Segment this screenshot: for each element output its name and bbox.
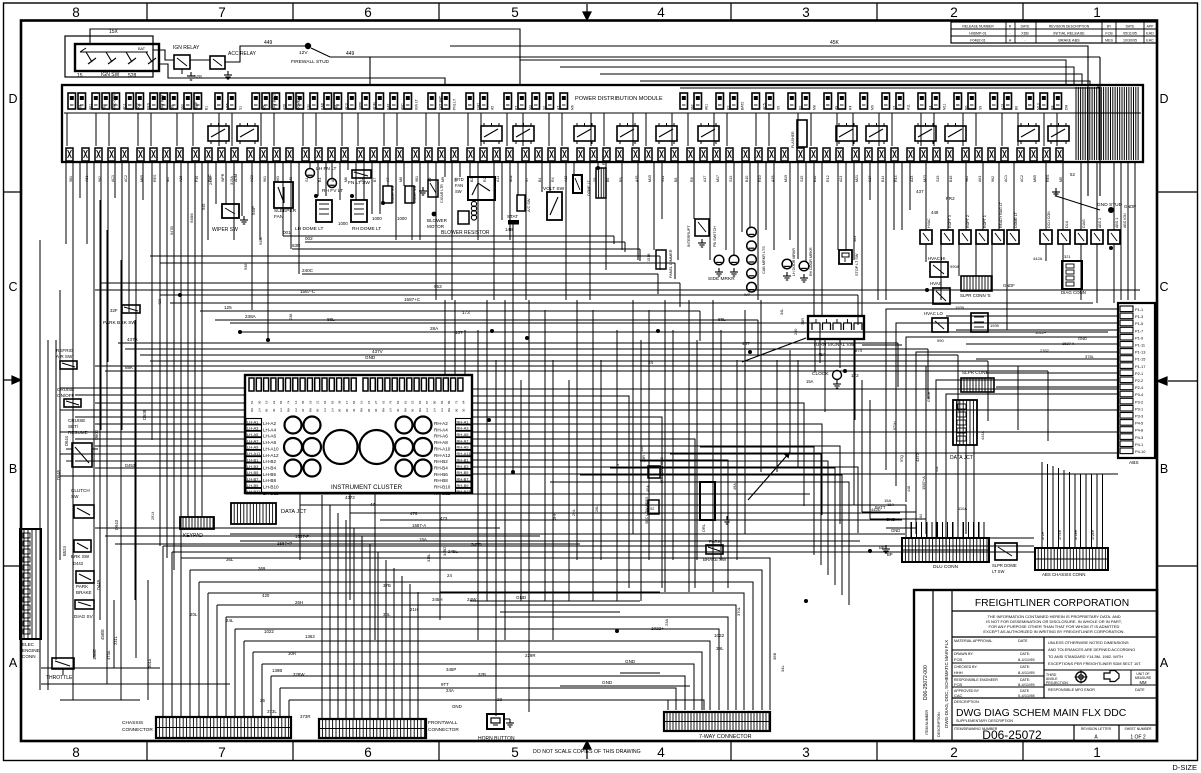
svg-text:DESCRIPTION:: DESCRIPTION: [937,711,941,737]
svg-text:RH: RH [287,408,291,412]
svg-text:D-SIZE: D-SIZE [1172,763,1197,772]
svg-text:1000: 1000 [372,216,382,221]
svg-text:HTD: HTD [455,177,464,182]
svg-text:2: 2 [950,5,958,20]
svg-text:64: 64 [462,400,466,404]
svg-text:P1-9: P1-9 [1135,335,1143,340]
svg-text:RH: RH [360,408,364,412]
svg-text:DATE:: DATE: [1020,652,1030,656]
svg-text:2914: 2914 [151,512,155,520]
wire turn signal drops [815,339,902,420]
wire 449 to firewall stud and right [225,46,305,62]
wire right staircase to dlu area [550,447,849,605]
svg-text:PROJECTION: PROJECTION [1046,681,1068,685]
wire dlu pin stubs [906,522,984,538]
svg-text:GND: GND [891,528,900,533]
svg-text:437V: 437V [372,349,384,354]
svg-text:1587-C: 1587-C [300,289,316,294]
svg-text:315L: 315L [427,554,431,562]
svg-text:SW: SW [71,494,79,499]
svg-text:36B: 36B [772,653,777,660]
data jct right connector [953,400,977,445]
junction dots [490,329,494,333]
svg-text:30: 30 [374,408,378,412]
svg-text:LH: LH [440,408,444,412]
slpr conn s connector [961,276,992,291]
svg-text:DLU: DLU [1065,220,1069,228]
svg-text:449: 449 [346,51,355,57]
svg-text:05/11/95: 05/11/95 [1123,32,1137,36]
svg-text:125: 125 [224,305,232,310]
svg-text:THROTTLE: THROTTLE [46,675,73,681]
svg-text:HORN BUTTON: HORN BUTTON [478,736,515,742]
svg-text:M8: M8 [399,177,403,182]
slpr conn small [971,313,988,332]
wire cluster right feeds and center nest [472,389,1118,588]
svg-text:RH-A1: RH-A1 [457,419,470,424]
svg-text:0-4/11/98: 0-4/11/98 [1018,693,1035,698]
svg-text:A: A [1160,656,1169,670]
svg-text:S1: S1 [305,178,309,182]
wire diagonal to turn signal [742,338,806,362]
power distribution module inner verticals [67,113,1057,146]
wire gnd at dlu [886,528,916,534]
svg-text:P1-3: P1-3 [1135,314,1143,319]
ac switch [517,195,525,211]
svg-text:83: 83 [396,400,400,404]
svg-text:B2: B2 [470,178,474,182]
svg-text:D608: D608 [142,409,147,420]
svg-text:449: 449 [264,40,273,46]
svg-text:528: 528 [128,73,137,79]
drl module [700,482,715,520]
svg-text:S7: S7 [893,106,897,110]
svg-text:B524: B524 [62,546,67,556]
rh dome light [351,200,367,222]
svg-text:PANEL DIMMER: PANEL DIMMER [669,249,673,278]
svg-text:8-4/11/95: 8-4/11/95 [1018,670,1035,675]
wire drops from power module right section [894,162,1135,300]
svg-text:R4: R4 [849,106,853,110]
svg-text:26H: 26H [295,600,303,605]
svg-text:A26: A26 [283,104,287,110]
svg-text:GNDF: GNDF [1003,283,1015,288]
svg-text:DATE: DATE [1018,639,1028,643]
svg-text:RH-B4: RH-B4 [434,465,448,470]
blower motor [432,212,437,217]
svg-text:RH-B8: RH-B8 [434,478,448,483]
svg-text:369: 369 [853,236,857,242]
svg-text:371EH: 371EH [1074,529,1078,540]
svg-text:B14: B14 [881,176,885,182]
svg-text:990: 990 [937,338,944,343]
wire right side hvac drops [926,244,1114,330]
svg-text:P4-10: P4-10 [1135,449,1146,454]
svg-text:LH-B8: LH-B8 [263,478,276,483]
svg-text:23A: 23A [664,619,669,626]
svg-text:60: 60 [257,400,261,404]
svg-text:962P: 962P [195,101,199,110]
svg-text:961: 961 [171,104,175,110]
svg-text:ADM: ADM [373,102,377,110]
svg-text:89: 89 [447,400,451,404]
svg-text:AC3: AC3 [345,103,349,110]
svg-text:M19: M19 [784,175,788,182]
svg-text:80: 80 [433,400,437,404]
svg-text:LH: LH [323,408,327,412]
wire middle vertical field [478,224,777,716]
ground below acc relay [227,71,229,75]
svg-text:DATE:: DATE: [1020,665,1030,669]
svg-text:S2: S2 [543,106,547,110]
svg-text:CAC: CAC [954,693,963,698]
svg-text:GND STUD: GND STUD [1097,202,1123,208]
svg-text:CHASSIS: CHASSIS [122,720,143,726]
power distribution module dense block right [1076,87,1138,160]
svg-text:S1: S1 [239,106,243,110]
svg-text:BAT: BAT [138,47,146,51]
svg-text:84: 84 [279,400,283,404]
svg-text:961: 961 [263,176,267,182]
svg-text:M13: M13 [1037,103,1041,110]
svg-text:1939: 1939 [990,323,1000,328]
svg-text:96: 96 [367,408,371,412]
svg-text:96: 96 [316,408,320,412]
svg-text:7: 7 [218,5,226,20]
svg-text:D: D [8,92,17,106]
svg-text:AC1: AC1 [1004,175,1008,182]
svg-text:34L: 34L [780,665,785,672]
svg-text:LH-A3: LH-A3 [247,426,259,431]
svg-text:BRK SW: BRK SW [71,554,90,559]
svg-text:CONN: CONN [22,654,36,659]
svg-text:B16: B16 [949,176,953,182]
svg-text:30: 30 [396,408,400,412]
svg-text:RH-A8: RH-A8 [434,440,448,445]
svg-text:CHECKED BY:: CHECKED BY: [954,665,978,669]
svg-text:19: 19 [265,400,269,404]
power distribution module output row [66,148,73,161]
svg-text:14: 14 [294,400,298,404]
wire gnd stud ground [1055,188,1057,196]
svg-text:15A: 15A [887,502,894,507]
svg-text:437: 437 [916,189,924,194]
svg-text:B7: B7 [373,178,377,182]
panel dimmer [656,250,666,269]
instrument cluster gauges [285,417,302,434]
wire extra feeds bottom [440,592,660,612]
ignition switch IGN SW [75,44,159,71]
svg-text:DATE: DATE [1135,688,1145,692]
svg-text:8-4/11/95: 8-4/11/95 [1018,657,1035,662]
svg-text:P1-13: P1-13 [1135,350,1145,355]
svg-text:HVAC: HVAC [930,281,942,286]
ground at wiper switch [243,216,245,220]
svg-text:M8: M8 [813,105,817,110]
svg-text:P1-11: P1-11 [1135,343,1145,348]
svg-text:1022: 1022 [264,629,274,634]
svg-text:001: 001 [283,230,291,235]
svg-text:M21: M21 [855,175,859,182]
svg-text:B2: B2 [799,106,803,110]
wire cluster left feeds [60,388,245,476]
svg-text:1000: 1000 [397,216,407,221]
svg-text:FCB: FCB [954,682,962,687]
svg-text:945: 945 [202,204,206,210]
svg-text:442A: 442A [1033,256,1043,261]
svg-text:30R: 30R [288,651,296,656]
power distribution module fuse row [68,93,76,109]
svg-text:AIR SW: AIR SW [56,354,73,359]
svg-text:RH-B12: RH-B12 [434,491,451,496]
cigar lighter [428,180,438,197]
svg-text:M15: M15 [648,175,652,182]
svg-text:DIAG SV: DIAG SV [74,614,94,619]
svg-text:458/E: 458/E [100,629,105,640]
svg-text:PNL LT: PNL LT [453,99,457,110]
svg-text:1000: 1000 [338,221,348,226]
svg-text:369: 369 [258,566,266,571]
svg-text:DM: DM [79,105,83,110]
svg-text:420: 420 [262,593,270,598]
cab marker lights [747,227,757,237]
svg-text:LH-A12: LH-A12 [263,453,279,458]
svg-text:H96MP-01: H96MP-01 [969,32,986,36]
svg-text:P1-15: P1-15 [1135,357,1145,362]
svg-text:RH-A10: RH-A10 [434,446,451,451]
svg-text:26: 26 [260,698,265,703]
svg-text:A9: A9 [835,106,839,110]
center alignment arrow bottom [583,741,591,759]
svg-text:RH-A7: RH-A7 [457,438,470,443]
svg-text:LH-B3: LH-B3 [247,464,259,469]
wire ign sw to relays [153,50,174,60]
svg-text:23: 23 [497,697,503,702]
svg-text:45A: 45A [818,352,826,357]
wire top right staircase from relays [520,60,1098,88]
svg-text:F0482-01: F0482-01 [970,39,985,43]
svg-text:A61: A61 [978,176,982,182]
diag conn connector [1062,261,1082,289]
svg-text:52: 52 [1070,172,1075,177]
svg-text:79: 79 [389,400,393,404]
rh door marker [799,261,809,271]
svg-text:39L: 39L [716,646,724,651]
svg-text:FLASHER: FLASHER [791,131,795,148]
svg-text:MATERIAL APPROVAL: MATERIAL APPROVAL [954,639,992,643]
svg-text:1362: 1362 [305,634,315,639]
svg-text:LH: LH [330,408,334,412]
frontwall connector [319,719,426,738]
wire diagonal at top right [1056,196,1100,210]
revision history table [951,22,1157,43]
svg-text:345P: 345P [446,667,456,672]
svg-text:DATE: DATE [1126,25,1136,29]
svg-text:DRL: DRL [701,523,706,532]
svg-text:RH: RH [403,408,407,412]
svg-text:STAT: STAT [507,214,518,219]
svg-text:173: 173 [462,310,470,315]
svg-text:26L: 26L [595,506,599,512]
wire short stubs above cluster [445,300,465,374]
svg-text:EAD: EAD [1146,32,1154,36]
svg-text:RH: RH [418,408,422,412]
svg-text:BRAKE: BRAKE [76,590,92,595]
7-way connector [664,712,770,731]
svg-text:DWG DIAG SCHEM MAIN FLX DDC: DWG DIAG SCHEM MAIN FLX DDC [956,708,1127,719]
svg-text:RH-A3: RH-A3 [457,426,470,431]
svg-text:TO ANSI STANDARD Y14.5M- 1982.: TO ANSI STANDARD Y14.5M- 1982. WITH [1048,654,1123,659]
svg-text:8: 8 [72,745,80,760]
svg-text:442D: 442D [871,507,881,512]
svg-text:981: 981 [335,104,339,110]
keypad connector [180,517,214,529]
svg-text:DM: DM [1065,105,1069,110]
svg-text:B4: B4 [929,106,933,110]
svg-text:528: 528 [194,74,202,79]
svg-text:64: 64 [323,400,327,404]
svg-text:EXCEPT AS AUTHORIZED IN WRITIN: EXCEPT AS AUTHORIZED IN WRITING BY FREIG… [983,629,1124,634]
svg-text:DPT INST: DPT INST [161,95,165,110]
svg-text:A: A [9,656,18,670]
svg-text:41L: 41L [935,466,939,472]
svg-text:377EH: 377EH [1058,529,1062,540]
svg-text:BAT: BAT [387,104,391,110]
svg-text:962: 962 [103,104,107,110]
wiper switch [222,204,239,218]
svg-text:464: 464 [919,514,923,520]
svg-text:240C: 240C [302,268,314,273]
elec engine connector [20,529,41,639]
svg-text:1: 1 [1093,745,1101,760]
svg-text:5: 5 [511,745,519,760]
svg-text:245L: 245L [448,549,458,554]
svg-text:946M: 946M [190,214,194,224]
svg-text:PB SWITCH: PB SWITCH [713,226,717,247]
wire dlu feed horizontals [854,505,926,534]
svg-text:D443: D443 [73,561,84,566]
wire 45K top run [450,46,1088,196]
svg-text:P4-8: P4-8 [1135,428,1143,433]
svg-text:DATE: DATE [1021,25,1031,29]
svg-text:LH-A6: LH-A6 [263,434,276,439]
svg-text:2HL: 2HL [572,509,576,516]
svg-text:DOOR SW: DOOR SW [413,185,417,203]
svg-text:1518: 1518 [647,254,651,262]
svg-text:4: 4 [657,5,665,20]
svg-text:LH-A5: LH-A5 [247,432,259,437]
svg-text:21H: 21H [410,607,418,612]
svg-text:FIREWALL STUD: FIREWALL STUD [291,59,330,65]
svg-text:B1: B1 [205,106,209,110]
abs chassis connector [1035,548,1108,570]
svg-text:38: 38 [338,400,342,404]
svg-text:DIAG: DIAG [1082,219,1086,228]
svg-text:A13: A13 [1001,104,1005,110]
svg-text:962: 962 [691,104,695,110]
svg-text:88K: 88K [125,365,134,370]
park brake valve [76,571,94,583]
12V firewall stud [305,43,311,49]
svg-text:139B: 139B [272,668,282,673]
svg-text:373L: 373L [267,709,277,714]
svg-text:DPT BW 2: DPT BW 2 [273,94,277,110]
svg-text:P2-2: P2-2 [1135,378,1143,383]
svg-text:378L: 378L [1085,354,1095,359]
svg-text:B: B [1160,462,1168,476]
rh fender light [328,179,337,188]
svg-text:IGN RELAY: IGN RELAY [173,45,200,51]
svg-text:D: D [1159,92,1168,106]
svg-text:IGN SW: IGN SW [101,72,120,78]
svg-text:ITEM NUMBER: ITEM NUMBER [925,709,929,735]
svg-text:45K: 45K [830,40,840,46]
svg-text:REVISION LETTER: REVISION LETTER [1081,727,1112,731]
wire data jct down feeds [958,445,1034,538]
title block drawing number band [952,724,1157,726]
svg-text:AC2: AC2 [124,175,128,182]
svg-text:A11: A11 [496,176,500,182]
svg-text:27: 27 [374,400,378,404]
center alignment arrow top [583,4,591,20]
svg-text:476: 476 [410,511,418,516]
svg-text:2: 2 [950,745,958,760]
svg-text:372EH: 372EH [1091,529,1095,540]
zone tick marks right [1157,192,1198,566]
svg-text:P2-1: P2-1 [1135,371,1143,376]
svg-text:M17: M17 [716,175,720,182]
svg-text:S15: S15 [800,176,804,182]
svg-text:CIGAR LTR: CIGAR LTR [440,184,444,203]
svg-text:AC5: AC5 [763,103,767,110]
svg-text:RH-A4: RH-A4 [434,427,448,432]
svg-text:FREIGHTLINER CORPORATION: FREIGHTLINER CORPORATION [975,598,1129,609]
svg-text:1587-A: 1587-A [412,523,426,528]
svg-text:GND: GND [625,659,636,664]
svg-text:B10: B10 [745,176,749,182]
svg-text:002: 002 [305,236,313,241]
zone tick marks bottom [147,741,1023,760]
svg-text:321: 321 [1064,254,1071,259]
svg-text:ABS 1: ABS 1 [1115,218,1119,228]
svg-text:990A: 990A [950,264,960,269]
svg-text:LH: LH [279,408,283,412]
wire drops from power module center section [268,162,886,340]
svg-text:FAN: FAN [455,183,463,188]
svg-text:REFRIG: REFRIG [56,348,74,353]
svg-text:GND: GND [516,595,527,600]
svg-text:473A: 473A [106,650,111,660]
svg-text:A21: A21 [839,176,843,182]
svg-text:RH-B6: RH-B6 [434,472,448,477]
wire bus band upper middle [95,236,1140,441]
svg-text:429: 429 [158,299,162,305]
svg-text:4: 4 [657,745,665,760]
svg-text:HVAC HI: HVAC HI [928,256,945,261]
instrument cluster pin header row [249,378,254,391]
svg-text:RH-B9: RH-B9 [457,483,470,488]
svg-text:LH-B1: LH-B1 [247,457,259,462]
svg-text:FCB: FCB [1105,32,1113,36]
title block proprietary note [952,636,1157,638]
svg-text:36L: 36L [226,557,234,562]
svg-text:C: C [8,280,17,294]
svg-text:ENGINE: ENGINE [22,648,40,653]
svg-text:370L: 370L [736,606,741,616]
svg-text:R2: R2 [727,106,731,110]
svg-text:A17: A17 [703,176,707,182]
svg-text:936: 936 [244,264,248,270]
